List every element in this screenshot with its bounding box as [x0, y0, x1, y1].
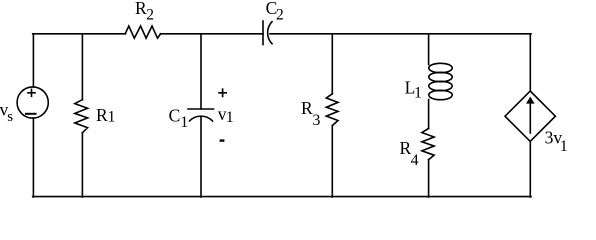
wire vs branch top: [32, 34, 34, 87]
wire R3 branch top: [331, 34, 333, 94]
svg-text:4: 4: [411, 152, 419, 169]
label minus of v1: [220, 139, 225, 141]
svg-text:1: 1: [108, 109, 116, 126]
svg-text:R: R: [96, 105, 108, 125]
wire vs branch bottom: [32, 118, 34, 197]
capacitor C2 curved plate: [268, 22, 272, 44]
wire current source branch bottom: [529, 141, 531, 197]
capacitor C1 curved plate: [190, 116, 213, 121]
wire top left segment: [33, 33, 126, 35]
capacitor C1 top plate: [188, 108, 214, 110]
svg-text:2: 2: [276, 7, 284, 24]
vs plus sign: [28, 89, 35, 96]
svg-text:R: R: [135, 0, 147, 18]
svg-text:R: R: [301, 98, 313, 118]
svg-text:1: 1: [414, 85, 422, 102]
resistor R3: [326, 94, 338, 126]
wire between L1 and R4: [428, 100, 430, 129]
resistor R2: [125, 26, 160, 38]
wire L1 branch top: [428, 34, 430, 65]
svg-text:2: 2: [146, 6, 154, 23]
wire R3 branch bottom: [331, 126, 333, 197]
wire bottom: [33, 196, 531, 198]
resistor R4: [422, 128, 434, 159]
capacitor C2 left plate: [262, 21, 264, 45]
resistor R1: [75, 100, 88, 133]
wire C1 branch bottom: [200, 117, 202, 197]
wire top right segment: [270, 33, 531, 35]
wire R1 branch bottom: [81, 133, 83, 197]
label plus of v1: [218, 88, 227, 97]
voltage source vs: [17, 87, 48, 118]
svg-text:C: C: [169, 105, 181, 125]
wire top middle segment: [160, 33, 263, 35]
current source arrow: [529, 103, 531, 133]
dependent current source 3v1 diamond: [505, 91, 555, 141]
svg-text:s: s: [7, 109, 13, 125]
svg-text:3: 3: [312, 112, 320, 129]
svg-text:1: 1: [226, 109, 234, 126]
vs minus sign: [26, 113, 36, 115]
wire current source branch top: [529, 34, 531, 91]
current source arrowhead: [526, 97, 535, 104]
svg-text:1: 1: [560, 138, 568, 155]
svg-text:1: 1: [180, 114, 188, 131]
wire R4 branch bottom: [428, 160, 430, 197]
wire C1 branch top: [200, 34, 202, 109]
wire R1 branch top: [81, 34, 83, 100]
inductor L1: [429, 63, 452, 99]
